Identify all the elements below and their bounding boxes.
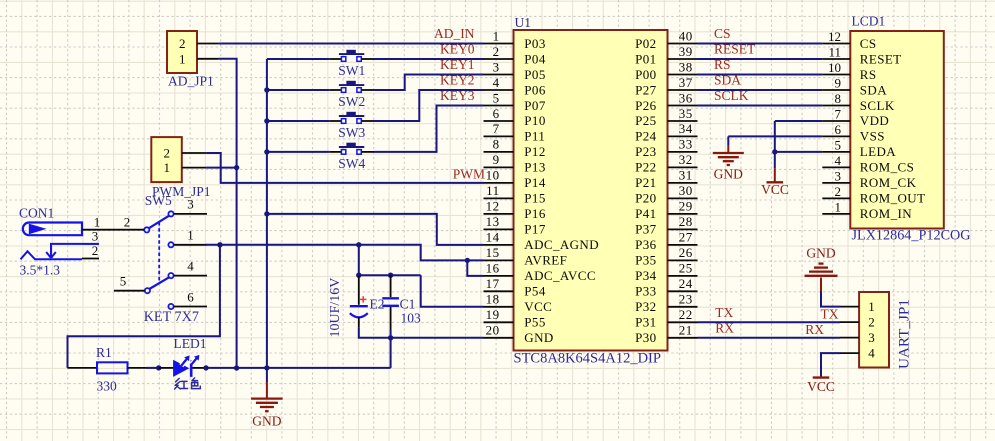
svg-text:12: 12 <box>486 199 500 214</box>
svg-text:ROM_CK: ROM_CK <box>860 175 917 190</box>
svg-text:P01: P01 <box>635 51 656 66</box>
svg-text:R1: R1 <box>96 345 112 360</box>
svg-text:P35: P35 <box>635 253 656 268</box>
svg-text:P00: P00 <box>635 67 656 82</box>
svg-text:1: 1 <box>187 228 194 243</box>
svg-text:34: 34 <box>679 121 693 136</box>
svg-text:7: 7 <box>835 106 842 121</box>
svg-text:31: 31 <box>679 168 693 183</box>
svg-text:3: 3 <box>92 229 99 244</box>
svg-text:1: 1 <box>94 214 101 229</box>
svg-text:2: 2 <box>493 44 500 59</box>
svg-text:36: 36 <box>679 90 693 105</box>
svg-text:CS: CS <box>860 36 877 51</box>
svg-text:P33: P33 <box>635 284 656 299</box>
svg-text:P23: P23 <box>635 144 656 159</box>
svg-text:CS: CS <box>714 26 731 41</box>
svg-text:4: 4 <box>868 345 875 360</box>
svg-text:P55: P55 <box>524 315 545 330</box>
svg-text:SW5: SW5 <box>145 193 172 208</box>
svg-text:38: 38 <box>679 59 693 74</box>
svg-text:15: 15 <box>486 245 500 260</box>
svg-text:14: 14 <box>486 230 500 245</box>
svg-text:P11: P11 <box>524 129 545 144</box>
svg-text:12: 12 <box>828 29 841 44</box>
svg-text:3: 3 <box>868 330 875 345</box>
svg-text:P54: P54 <box>524 284 546 299</box>
svg-text:P41: P41 <box>635 206 656 221</box>
svg-text:P25: P25 <box>635 113 656 128</box>
svg-text:103: 103 <box>401 311 422 326</box>
svg-text:3: 3 <box>835 168 842 183</box>
svg-text:RESET: RESET <box>860 51 902 66</box>
svg-text:P21: P21 <box>635 175 656 190</box>
svg-text:2: 2 <box>179 36 186 51</box>
svg-text:GND: GND <box>252 414 281 429</box>
svg-text:P14: P14 <box>524 175 546 190</box>
svg-text:UART_JP1: UART_JP1 <box>896 299 913 369</box>
svg-text:P30: P30 <box>635 330 656 345</box>
svg-text:RX: RX <box>715 320 734 335</box>
svg-text:11: 11 <box>486 183 500 198</box>
svg-text:2: 2 <box>164 146 171 161</box>
svg-text:8: 8 <box>835 91 842 106</box>
svg-text:VCC: VCC <box>761 182 789 197</box>
svg-text:27: 27 <box>679 230 693 245</box>
svg-text:SDA: SDA <box>714 73 741 88</box>
svg-text:ROM_OUT: ROM_OUT <box>860 191 926 206</box>
svg-text:SCLK: SCLK <box>860 98 895 113</box>
svg-text:10: 10 <box>486 168 500 183</box>
svg-text:2: 2 <box>835 184 842 199</box>
svg-text:22: 22 <box>679 307 693 322</box>
svg-text:PWM: PWM <box>453 167 485 182</box>
svg-text:GND: GND <box>806 246 835 261</box>
svg-text:P20: P20 <box>635 191 656 206</box>
svg-text:37: 37 <box>679 75 693 90</box>
svg-text:SDA: SDA <box>860 82 887 97</box>
svg-text:VDD: VDD <box>860 113 889 128</box>
svg-text:AVREF: AVREF <box>524 253 567 268</box>
svg-text:13: 13 <box>486 214 500 229</box>
svg-text:RX: RX <box>805 322 824 337</box>
svg-text:21: 21 <box>679 323 693 338</box>
svg-text:STC8A8K64S4A12_DIP: STC8A8K64S4A12_DIP <box>514 351 661 367</box>
svg-text:3.5*1.3: 3.5*1.3 <box>20 262 61 277</box>
svg-text:P16: P16 <box>524 206 546 221</box>
svg-text:SW3: SW3 <box>338 125 365 140</box>
svg-text:P34: P34 <box>635 268 657 283</box>
svg-text:28: 28 <box>679 214 693 229</box>
svg-text:26: 26 <box>679 245 693 260</box>
svg-text:ADC_AGND: ADC_AGND <box>524 237 599 252</box>
svg-text:7: 7 <box>493 121 500 136</box>
svg-text:4: 4 <box>493 75 500 90</box>
svg-text:1: 1 <box>868 299 875 314</box>
svg-text:1: 1 <box>179 51 186 66</box>
svg-text:P37: P37 <box>635 222 657 237</box>
svg-text:P31: P31 <box>635 315 656 330</box>
svg-text:ROM_CS: ROM_CS <box>860 160 914 175</box>
svg-text:19: 19 <box>486 307 500 322</box>
svg-text:16: 16 <box>486 261 500 276</box>
svg-text:P06: P06 <box>524 82 546 97</box>
svg-text:VCC: VCC <box>807 379 835 394</box>
svg-text:U1: U1 <box>515 15 532 30</box>
svg-text:24: 24 <box>679 276 693 291</box>
svg-text:8: 8 <box>493 137 500 152</box>
svg-text:P26: P26 <box>635 98 657 113</box>
svg-text:35: 35 <box>679 106 693 121</box>
svg-text:1: 1 <box>493 28 500 43</box>
svg-text:39: 39 <box>679 44 693 59</box>
svg-text:P05: P05 <box>524 67 545 82</box>
svg-text:9: 9 <box>493 152 500 167</box>
svg-text:P02: P02 <box>635 36 656 51</box>
svg-text:VSS: VSS <box>860 129 885 144</box>
svg-text:JLX12864_P12COG: JLX12864_P12COG <box>852 228 971 244</box>
svg-text:RS: RS <box>860 67 877 82</box>
svg-text:LED1: LED1 <box>174 336 207 351</box>
svg-text:AD_JP1: AD_JP1 <box>168 74 214 89</box>
svg-text:18: 18 <box>486 292 500 307</box>
svg-text:SCLK: SCLK <box>714 88 749 103</box>
svg-text:32: 32 <box>679 152 693 167</box>
svg-text:2: 2 <box>92 243 99 258</box>
svg-text:9: 9 <box>835 75 842 90</box>
svg-text:17: 17 <box>486 276 500 291</box>
svg-text:P12: P12 <box>524 144 545 159</box>
svg-text:3: 3 <box>493 59 500 74</box>
svg-text:TX: TX <box>715 305 733 320</box>
svg-text:330: 330 <box>97 379 118 394</box>
svg-text:10: 10 <box>828 60 841 75</box>
svg-text:P32: P32 <box>635 299 656 314</box>
svg-text:SW1: SW1 <box>338 63 365 78</box>
svg-text:GND: GND <box>524 330 553 345</box>
svg-text:P27: P27 <box>635 82 657 97</box>
svg-text:E2: E2 <box>370 297 385 312</box>
svg-text:6: 6 <box>493 106 500 121</box>
svg-text:P10: P10 <box>524 113 545 128</box>
svg-text:AD_IN: AD_IN <box>434 26 475 41</box>
svg-text:P17: P17 <box>524 222 546 237</box>
svg-text:4: 4 <box>187 258 194 273</box>
svg-text:P07: P07 <box>524 98 546 113</box>
svg-text:5: 5 <box>120 274 127 289</box>
svg-text:20: 20 <box>486 323 500 338</box>
svg-text:CON1: CON1 <box>19 206 54 221</box>
svg-text:25: 25 <box>679 261 693 276</box>
svg-text:GND: GND <box>714 167 743 182</box>
svg-text:P24: P24 <box>635 129 657 144</box>
svg-text:KEY0: KEY0 <box>440 42 475 57</box>
svg-text:2: 2 <box>868 314 875 329</box>
svg-text:10UF/16V: 10UF/16V <box>328 278 343 338</box>
svg-text:2: 2 <box>124 214 131 229</box>
svg-text:1: 1 <box>164 160 171 175</box>
svg-text:ROM_IN: ROM_IN <box>860 206 912 221</box>
svg-text:TX: TX <box>821 306 839 321</box>
svg-text:RESET: RESET <box>714 42 756 57</box>
svg-text:KET 7X7: KET 7X7 <box>144 309 199 325</box>
svg-text:5: 5 <box>835 137 842 152</box>
svg-text:P03: P03 <box>524 36 545 51</box>
svg-text:P36: P36 <box>635 237 657 252</box>
svg-text:LCD1: LCD1 <box>852 14 886 29</box>
svg-text:30: 30 <box>679 183 693 198</box>
svg-text:5: 5 <box>493 90 500 105</box>
svg-text:P13: P13 <box>524 160 545 175</box>
svg-text:6: 6 <box>187 289 194 304</box>
svg-text:VCC: VCC <box>524 299 552 314</box>
svg-text:33: 33 <box>679 137 693 152</box>
svg-text:LEDA: LEDA <box>860 144 896 159</box>
svg-text:23: 23 <box>679 292 693 307</box>
svg-text:6: 6 <box>835 122 842 137</box>
svg-text:C1: C1 <box>400 297 416 312</box>
svg-text:SW4: SW4 <box>338 156 365 171</box>
svg-text:1: 1 <box>835 199 842 214</box>
svg-text:SW2: SW2 <box>338 94 365 109</box>
svg-text:P15: P15 <box>524 191 545 206</box>
svg-text:P22: P22 <box>635 160 656 175</box>
svg-text:P04: P04 <box>524 51 546 66</box>
svg-text:ADC_AVCC: ADC_AVCC <box>524 268 596 283</box>
svg-text:11: 11 <box>828 44 841 59</box>
svg-text:29: 29 <box>679 199 693 214</box>
svg-text:3: 3 <box>187 197 194 212</box>
svg-text:RS: RS <box>714 57 731 72</box>
svg-text:40: 40 <box>679 28 693 43</box>
svg-text:4: 4 <box>835 153 842 168</box>
